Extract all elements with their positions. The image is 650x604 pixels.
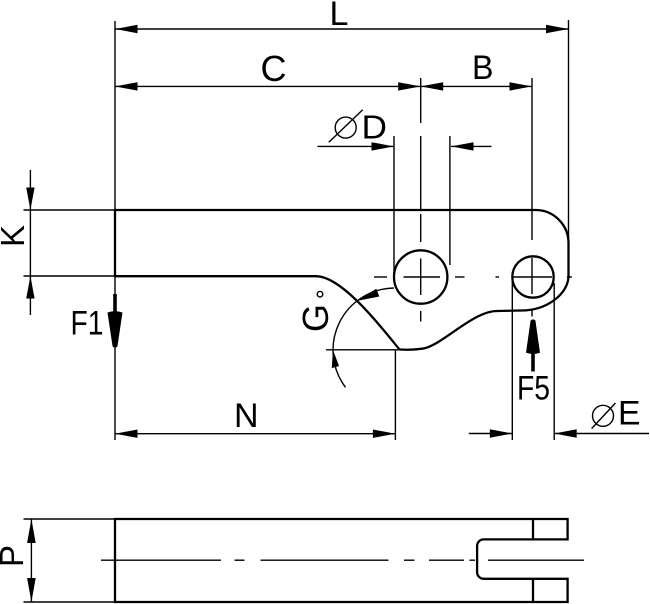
arrow L right [546, 25, 569, 33]
centerline horizontal through holes [374, 276, 572, 278]
part outline main view [115, 210, 569, 350]
centerline vertical small hole [531, 78, 533, 317]
force arrow F1 [113, 294, 117, 315]
angle G arc [333, 288, 394, 387]
centerline vertical big hole [420, 78, 422, 322]
small hole E [512, 256, 553, 297]
dimension K extension lines [24, 209, 116, 211]
angle G arrow on horizontal [332, 350, 339, 368]
arrow C right [398, 82, 421, 90]
dimension E line [469, 433, 513, 435]
force arrow F5 [531, 353, 535, 372]
arrow N right [373, 430, 396, 438]
dimension P extension lines [24, 518, 116, 520]
arrow B right [510, 82, 533, 90]
big hole D [394, 250, 447, 303]
arrow P bottom [27, 578, 36, 602]
dimension P line [30, 519, 32, 602]
side view edge line at fork [532, 519, 534, 539]
svg-text:L: L [330, 0, 349, 33]
svg-text:K: K [0, 225, 31, 247]
dimension K line [29, 170, 31, 315]
side view centerline [101, 559, 584, 561]
svg-text:B: B [472, 49, 494, 87]
arrow K top [26, 188, 34, 211]
extension line right for L [568, 20, 570, 243]
arrow P top [27, 519, 36, 543]
svg-text:G: G [295, 304, 336, 332]
svg-text:N: N [234, 397, 259, 435]
arrow L left [115, 25, 138, 33]
svg-text:C: C [261, 48, 287, 89]
extension line left (shared by L, C, N dims) [114, 21, 116, 440]
svg-text:E: E [618, 395, 641, 433]
dimension C/B line [115, 85, 532, 87]
dimension E extension lines [511, 280, 513, 440]
label diameter symbol D [335, 117, 356, 138]
angle G arrow on slant [356, 289, 379, 301]
angle G reference line [326, 349, 417, 351]
side view outline [115, 519, 568, 602]
dimension L line [115, 28, 569, 30]
dimension N extension right [394, 350, 396, 440]
arrow D left [372, 142, 395, 150]
svg-text:F5: F5 [517, 370, 550, 408]
label diameter symbol E [593, 405, 614, 426]
arrow C left [115, 82, 138, 90]
svg-text:F1: F1 [71, 305, 104, 343]
arrow D right [451, 142, 474, 150]
dimension N line [115, 433, 395, 435]
arrow E right [554, 429, 577, 437]
degree symbol of G [317, 291, 323, 297]
dimension D extension lines [393, 136, 395, 281]
arrow K bottom [26, 276, 34, 299]
svg-text:P: P [0, 545, 30, 567]
svg-text:D: D [362, 109, 388, 146]
arrow B left [421, 82, 444, 90]
arrow N left [115, 430, 138, 438]
arrow E left [490, 429, 513, 437]
dimension D line [318, 145, 395, 147]
